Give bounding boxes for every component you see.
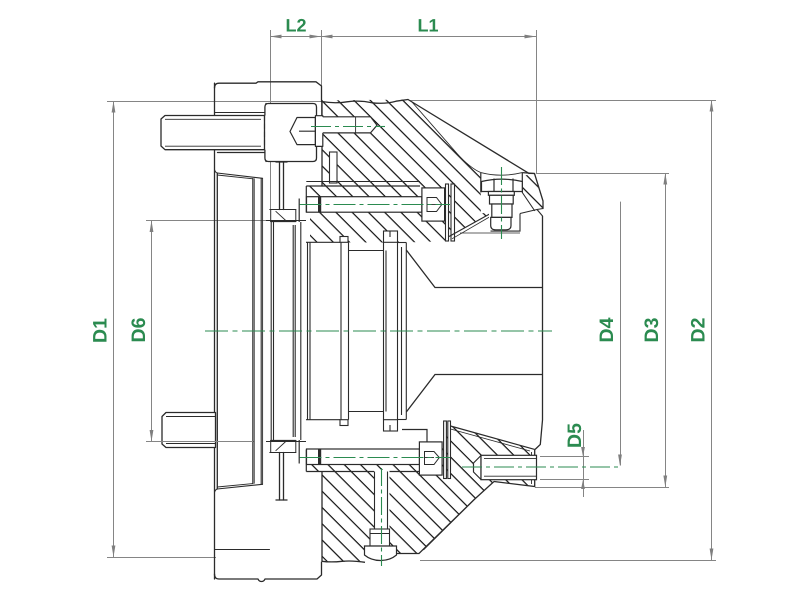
body right face (535, 216, 543, 450)
flange taper top (215, 170, 263, 178)
vertical bolt top-right (482, 179, 523, 230)
spot face rim arc over bolt head (481, 173, 523, 176)
bottom caps (306, 419, 340, 421)
svg-text:D5: D5 (564, 423, 586, 448)
top bolt centerline (311, 126, 385, 128)
D1 ext top y=101 (107, 101, 321, 103)
bottom-right ring outline (322, 449, 535, 562)
pilot ring shoulder bottom (270, 452, 296, 454)
sleeve top tabs (white) (340, 231, 398, 431)
body cone diagonal top (408, 100, 529, 174)
bottom-left stud (162, 413, 216, 448)
part outlines (215, 82, 544, 582)
body front face bottom (321, 472, 323, 562)
arrow D5 bottom (points up to ext) (581, 480, 585, 490)
svg-text:D6: D6 (128, 317, 150, 342)
top-right vertical bolt centerline (501, 167, 503, 239)
green centerlines (205, 127, 622, 567)
D6 ext line over stud (148, 441, 253, 443)
arrow D2 top (710, 100, 714, 112)
D6 ext bottom y=441.5 (146, 441, 254, 443)
D2 dim line x=711.5 (711, 101, 713, 561)
svg-text:D2: D2 (687, 317, 709, 342)
collar bottom edge (215, 562, 322, 582)
mid top bolt (socket head cap screw) (307, 188, 445, 221)
D3 ext bottom y=487 (535, 487, 669, 489)
svg-text:L2: L2 (285, 16, 306, 36)
cavity left wall pieces (265, 148, 267, 162)
D5 ext bottom y=479.5 (540, 479, 589, 481)
D1 dim line x=113.5 (113, 102, 115, 558)
body top wavy break edge (322, 100, 409, 104)
flange disc front faces x=214/217 (214, 83, 216, 579)
cavity in collar (white) (265, 104, 317, 162)
pilot ring shoulder top (270, 209, 296, 211)
arrow L2 left (270, 35, 282, 39)
D5 ext top y=456.5 (540, 456, 589, 458)
ext line L2 left x=270 (270, 30, 272, 210)
collar front step line bottom (215, 549, 270, 551)
sleeve columns center (306, 242, 406, 419)
bottom-right stud (D5) (474, 455, 537, 479)
bottom-right stud centerline (462, 466, 622, 468)
inner counterbore chamfer (522, 193, 534, 211)
collar step under top stud (218, 152, 267, 154)
recess for vertical bolt (white) (481, 172, 523, 193)
dimension extension lines (gray) (107, 30, 716, 561)
arrow D4 bottom (618, 455, 622, 467)
main axis centerline (205, 330, 552, 332)
bottom vertical bolt centerline (381, 468, 383, 566)
pilot sleeve columns (left middle) (266, 221, 306, 442)
D3 ext top y=173 (536, 173, 669, 175)
hex bolt head in cavity (290, 116, 323, 147)
mid bottom bolt centerline (300, 457, 451, 459)
arrow D2 bottom (710, 549, 714, 561)
dimension arrowheads (112, 35, 714, 560)
clamp boss outline (top) (299, 182, 420, 223)
arrow D3 bottom (663, 476, 667, 488)
D6 dim line x=151.5 (151, 221, 153, 442)
arrow L2 right (310, 35, 322, 39)
arrow D3 top (663, 173, 667, 185)
dim line L2/L1 y=36.5 (271, 36, 537, 38)
drive plates right of top bolt head (446, 184, 455, 241)
central bore cone and cylinder (406, 216, 542, 450)
top-left long stud (161, 116, 265, 150)
dimension labels (285, 16, 438, 36)
arrow D1 top (112, 101, 116, 113)
D6 ext top y=220.5 (146, 220, 266, 222)
D5 dim line x=583 (583, 430, 585, 497)
svg-text:L1: L1 (417, 16, 438, 36)
svg-text:D3: D3 (641, 317, 663, 342)
flange back faces (252, 179, 254, 484)
top bolt shank through body with cone tip (317, 117, 378, 133)
neck piece bottom (279, 453, 281, 501)
D4 dim line x=620 (620, 202, 622, 466)
floor slant (inner cavity bottom right) (451, 426, 535, 451)
drive plates right of bottom bolt head (444, 421, 451, 479)
step to right face (537, 210, 543, 217)
svg-text:D1: D1 (89, 318, 111, 343)
recess face segment (522, 172, 534, 175)
hatched body section top (306, 100, 490, 243)
flange taper bottom (215, 484, 263, 492)
mid top bolt centerline (300, 204, 451, 206)
body front face x=322 top (321, 101, 323, 118)
hatched body section bottom (322, 426, 535, 562)
arrow D5 top (points down to ext) (581, 447, 585, 457)
hatched left column bottom (306, 450, 322, 472)
mid bottom bolt (socket head cap screw) (307, 442, 443, 475)
body front face x=322 below shank (321, 133, 323, 186)
face and outer corner top right (529, 173, 543, 208)
ceiling slant (inner cavity top right) (449, 214, 491, 239)
neck piece top (279, 162, 281, 210)
bottom vertical bolt (365, 470, 397, 561)
svg-text:D4: D4 (596, 317, 618, 342)
arrow L1 left (321, 35, 333, 39)
small cylinder pin in top body (330, 152, 338, 183)
collar front step line top (215, 112, 270, 114)
body cone diagonal top parallel line (412, 102, 481, 173)
top caps (306, 241, 340, 243)
arrow L1 right (525, 35, 537, 39)
D3 dim line x=665.3 (665, 174, 667, 488)
D1 ext bottom y=557 (107, 557, 216, 559)
clamp boss outline (bottom) (299, 430, 427, 472)
hole box below vertical bolt (white) (489, 193, 520, 232)
D2 ext bottom y=560 (420, 560, 716, 562)
ext line L1 right x=536 (536, 30, 538, 173)
collar top edge (215, 82, 322, 101)
hatched slice right of recess (522, 174, 543, 210)
ext line L2/L1 shared x=321 (321, 30, 323, 117)
arrow D6 bottom (150, 430, 154, 442)
arrow D1 bottom (112, 546, 116, 558)
D2 ext top y=100 (410, 100, 716, 102)
hidden thread end dashes (264, 116, 266, 150)
arrow D6 top (150, 221, 154, 233)
